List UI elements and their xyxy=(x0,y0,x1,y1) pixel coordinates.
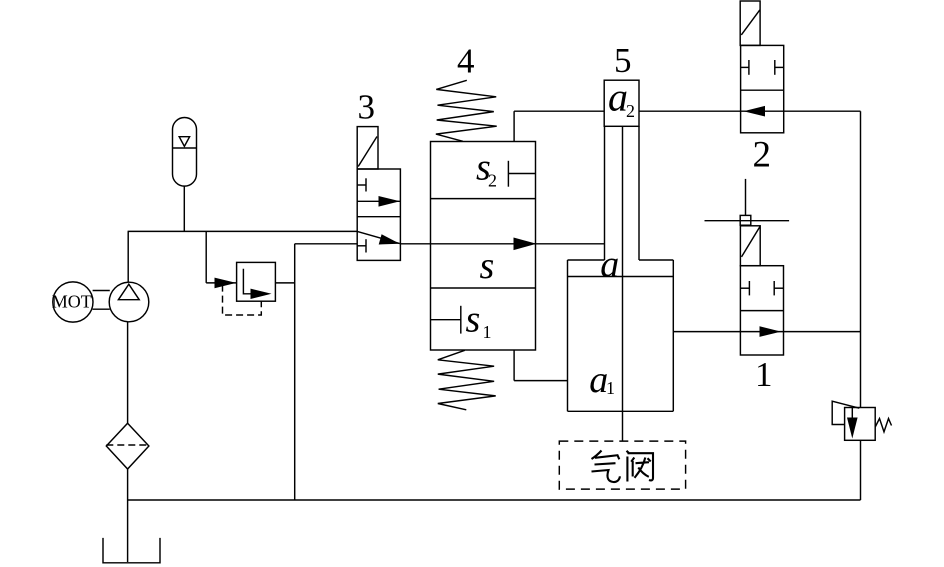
relief valve RV2 pilot flag xyxy=(832,401,859,424)
relief valve RV1 body xyxy=(237,262,276,301)
valve V3 upper flow arrow xyxy=(357,196,400,207)
valve V1 pilot line xyxy=(745,179,747,216)
valve V2 body xyxy=(741,45,784,132)
valve V1 solenoid xyxy=(740,225,760,266)
valve V1 pilot cross line xyxy=(705,220,790,222)
valve V1 pilot square xyxy=(740,215,751,225)
valve V3 lower blocked port xyxy=(357,239,366,252)
wire valve4 out to neck xyxy=(536,243,605,245)
svg-text:2: 2 xyxy=(626,101,635,121)
wire pump inlet down xyxy=(127,322,129,423)
pump P xyxy=(109,282,149,322)
right bus lower xyxy=(860,440,862,500)
valve V4 label s1 xyxy=(466,298,492,342)
bottom return bus xyxy=(128,499,861,501)
filter F xyxy=(106,423,149,469)
svg-text:a: a xyxy=(608,74,628,119)
svg-text:1: 1 xyxy=(755,355,773,394)
neck right wall xyxy=(638,126,640,260)
valve stem center line xyxy=(622,126,624,441)
arrow relief inlet xyxy=(215,278,237,289)
label a2 xyxy=(608,74,635,121)
air valve text fa xyxy=(627,451,654,482)
relief valve RV2 body xyxy=(845,408,876,441)
pilot box a2 xyxy=(604,80,639,126)
valve V4 bottom spring xyxy=(438,350,496,410)
motor MOT xyxy=(52,282,93,322)
wire valve4 to pilot stage a2 xyxy=(514,111,604,141)
accumulator xyxy=(173,118,197,187)
valve V2 solenoid xyxy=(740,1,760,45)
wire valve4 bottom to cylinder xyxy=(514,350,567,381)
svg-text:1: 1 xyxy=(606,378,615,398)
valve V2 upper blocked ports xyxy=(741,60,784,75)
air valve dashed box xyxy=(559,441,685,489)
valve V3 solenoid xyxy=(357,127,378,169)
svg-text:a: a xyxy=(600,243,619,285)
relief valve RV2 internal arrow down xyxy=(847,408,858,439)
svg-text:2: 2 xyxy=(753,135,772,176)
wire valve3 to valve4 xyxy=(400,243,430,245)
valve V4 s1 blocked port xyxy=(431,306,461,334)
valve V1 body xyxy=(740,266,783,355)
wire pump outlet up xyxy=(127,231,129,282)
wire valve1 to right bus xyxy=(784,331,861,333)
wire drain vertical xyxy=(294,244,296,500)
svg-text:3: 3 xyxy=(358,88,376,127)
air valve text qi xyxy=(592,451,620,483)
valve V4 s2 blocked port xyxy=(508,161,535,187)
wire relief outlet xyxy=(275,282,294,284)
wire to valve 3 lower port xyxy=(295,243,358,245)
wire filter to bottom bus xyxy=(127,469,129,500)
valve V3 upper blocked port xyxy=(357,178,366,191)
label a1 xyxy=(589,359,615,401)
tank xyxy=(103,538,160,563)
pilot line a2 to valve2 xyxy=(639,110,861,112)
valve V3 body xyxy=(357,169,400,260)
coupling motor-pump xyxy=(93,291,110,310)
wire suction line to tank xyxy=(127,500,129,562)
relief valve RV1 pilot dashed xyxy=(223,285,262,315)
relief valve RV2 spring xyxy=(875,419,891,432)
pressure bus xyxy=(128,230,358,232)
wire accumulator drop xyxy=(183,186,185,231)
right bus upper xyxy=(860,111,862,407)
cylinder body xyxy=(568,260,674,411)
svg-text:4: 4 xyxy=(457,42,475,81)
svg-text:1: 1 xyxy=(483,322,492,342)
neck left wall xyxy=(604,126,606,260)
wire cylinder right port to valve1 xyxy=(673,331,740,333)
svg-text:s: s xyxy=(480,245,495,287)
svg-text:s: s xyxy=(466,298,481,340)
svg-text:2: 2 xyxy=(488,171,497,191)
valve V4 top spring xyxy=(436,80,497,141)
valve V4 middle flow line with arrow xyxy=(431,238,537,251)
relief valve RV1 internal path xyxy=(243,269,271,299)
svg-text:MOT: MOT xyxy=(52,292,92,312)
wire relief inlet xyxy=(206,282,236,284)
valve V3 lower flow diagonal xyxy=(357,231,400,244)
valve V4 label s2 xyxy=(476,147,497,191)
valve V1 flow line with arrow xyxy=(740,326,783,337)
valve V1 upper blocked ports xyxy=(740,281,783,295)
wire relief branch down xyxy=(205,231,207,283)
valve V4 body xyxy=(431,142,536,351)
valve V2 flow arrow left xyxy=(744,106,766,117)
